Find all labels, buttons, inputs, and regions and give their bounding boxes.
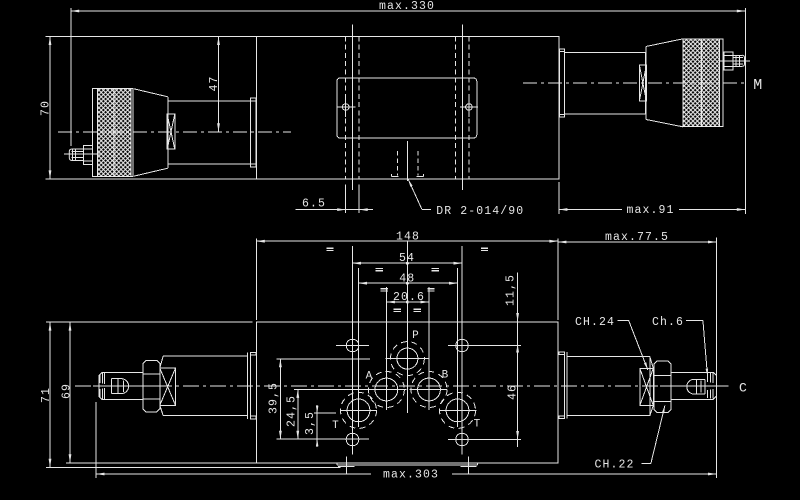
bottom view: bolt column construction line left: [352, 246, 354, 455]
bottom view: interface plate under body: [337, 464, 478, 466]
svg-text:C: C: [739, 381, 748, 396]
leader to DR 2-014/90 label: [408, 180, 422, 210]
bottom left: adjustment screw body: [99, 373, 143, 400]
dimension max.303: [95, 402, 97, 478]
svg-text:max.77.5: max.77.5: [605, 231, 669, 244]
svg-text:148: 148: [396, 231, 420, 244]
svg-text:39,5: 39,5: [268, 382, 281, 414]
top view left cartridge: sleeve cylinder: [168, 101, 251, 164]
svg-text:max.330: max.330: [379, 0, 435, 13]
svg-text:max.91: max.91: [626, 204, 674, 217]
dimension 24.5: [297, 389, 299, 439]
top view: left fixing-hole crosshair: [342, 104, 349, 111]
top view right cartridge: detent box with X: [639, 65, 646, 101]
top view: right fixing-hole crosshair: [466, 104, 473, 111]
bottom view: right fixing screw cross: [467, 457, 469, 475]
bolt hole bottom-right: [456, 433, 469, 446]
svg-text:DR 2-014/90: DR 2-014/90: [436, 205, 524, 218]
top view: O-ring seat mark (DR 2-014/90): [407, 141, 409, 181]
top view left cartridge: mounting flange rings: [249, 98, 251, 167]
port B crosshair: [410, 389, 448, 391]
svg-text:T: T: [474, 419, 482, 431]
bolt hole top-left: [346, 339, 359, 352]
bottom left: sleeve: [163, 355, 247, 357]
bottom left: detent box with X: [160, 368, 176, 405]
top view right cartridge: sleeve cylinder: [564, 52, 645, 114]
dimension 3.5: [316, 405, 318, 447]
bottom view: bolt column construction line right: [461, 246, 463, 455]
dimension 47: [218, 37, 220, 132]
bottom view: B column construction line: [428, 287, 430, 410]
top view right axis centerline: [523, 82, 748, 84]
svg-text:3,5: 3,5: [304, 411, 317, 435]
dimension 148: [255, 238, 257, 320]
top view left knob: knurled band: [93, 88, 134, 176]
svg-text:6.5: 6.5: [302, 198, 326, 211]
dimension 20.6: [386, 301, 429, 303]
svg-text:T: T: [332, 420, 340, 432]
svg-text:CH.22: CH.22: [594, 459, 634, 472]
svg-text:M: M: [753, 77, 763, 94]
svg-text:46: 46: [507, 384, 520, 400]
svg-text:70: 70: [39, 100, 52, 116]
dimension max.91: [558, 182, 560, 214]
dimension 6.5 (phi): [345, 184, 347, 213]
svg-text:47: 47: [208, 75, 221, 91]
dimension 70: [46, 36, 257, 38]
svg-text:A: A: [366, 371, 374, 383]
bottom right: hex nut CH.22: [654, 361, 671, 413]
top view: right bolt hidden lines (dashed): [454, 37, 456, 179]
bottom right: detent box with X (CH.24): [640, 368, 654, 405]
top view: mounting interface rounded rectangle: [337, 78, 477, 138]
bottom left: screw centerline: [93, 385, 160, 387]
port T right circle: [446, 399, 469, 422]
dimension 69: [66, 462, 256, 464]
svg-text:11,5: 11,5: [505, 274, 518, 306]
bottom right: flange rings: [563, 352, 565, 419]
bottom right: sleeve: [567, 355, 650, 357]
bottom right: internal hex socket Ch.6: [692, 379, 705, 381]
bottom right: screw centerline: [660, 385, 728, 387]
port P crosshair: [386, 358, 430, 360]
dimension max.330: [70, 8, 72, 146]
bottom left: screw thread ticks: [99, 374, 101, 383]
dimension 54: [353, 262, 463, 264]
top view left knob: locking screw with hex: [84, 146, 93, 165]
svg-text:69: 69: [60, 383, 73, 399]
bottom left: hex nut CH.22: [143, 360, 160, 412]
port B circle: [418, 378, 441, 401]
dimension 48: [359, 282, 458, 284]
bolt hole bottom-left: [346, 433, 359, 446]
bottom view: A column construction line: [385, 287, 387, 410]
svg-text:54: 54: [399, 252, 415, 265]
dimension 46: [517, 344, 519, 447]
dimension max.77.5: [716, 238, 718, 478]
bottom view: P column construction line: [406, 242, 408, 414]
bottom view: T column construction line left: [358, 268, 360, 427]
top view left cartridge: cone section: [134, 89, 168, 97]
port A circle: [375, 378, 398, 401]
top view right knob: knurled band: [683, 39, 723, 126]
top view: valve body outline: [257, 37, 559, 179]
bottom right: screw thread ticks: [707, 374, 709, 383]
svg-text:24,5: 24,5: [286, 395, 299, 427]
bottom left: flange rings: [247, 352, 249, 418]
dimension 39.5: [279, 359, 281, 439]
port A crosshair: [356, 389, 407, 391]
top view: left bolt centerline: [351, 25, 353, 190]
svg-text:max.303: max.303: [383, 469, 439, 482]
top view right knob: locking screw with hex: [724, 52, 733, 70]
bottom right: end screw body: [671, 372, 716, 399]
port P circle: [397, 348, 418, 369]
bottom view main axis centerline: [75, 385, 728, 387]
svg-text:CH.24: CH.24: [575, 316, 615, 329]
bottom left: internal hex socket: [111, 378, 122, 380]
top view: right bolt centerline: [461, 25, 463, 190]
bottom view: valve body outline: [256, 322, 558, 463]
top view right cartridge: cone section: [646, 39, 683, 47]
top view left cartridge: detent box with X: [167, 114, 175, 149]
top view right cartridge: mounting flange rings: [558, 49, 560, 117]
top view left axis centerline: [58, 131, 291, 133]
svg-text:B: B: [442, 370, 450, 382]
bottom view: left fixing screw cross: [345, 457, 347, 475]
top view: left bolt hidden lines (dashed): [345, 37, 347, 179]
port T left circle: [347, 399, 370, 422]
dimension 11.5: [517, 273, 519, 344]
svg-text:20.6: 20.6: [393, 291, 425, 304]
svg-text:71: 71: [40, 387, 53, 403]
bolt hole top-right: [456, 339, 469, 352]
svg-text:Ch.6: Ch.6: [652, 316, 684, 329]
svg-text:P: P: [412, 330, 420, 342]
svg-text:48: 48: [399, 272, 415, 285]
bottom view: T column construction line right: [457, 268, 459, 427]
dimension 71: [46, 321, 253, 323]
